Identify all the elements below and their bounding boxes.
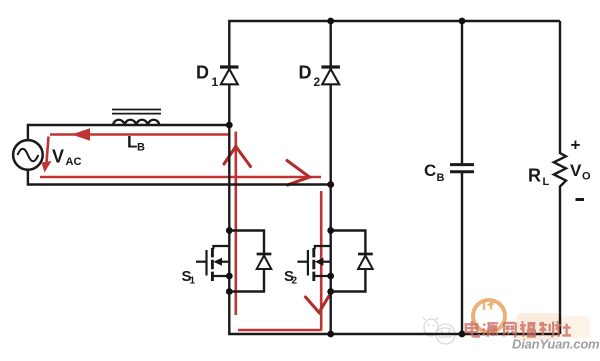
svg-text:1: 1 xyxy=(212,75,219,89)
svg-text:V: V xyxy=(570,161,582,180)
svg-text:AC: AC xyxy=(66,156,82,168)
svg-text:V: V xyxy=(52,147,64,167)
svg-text:D: D xyxy=(196,63,209,83)
svg-text:DianYuan.com: DianYuan.com xyxy=(512,337,600,352)
svg-text:B: B xyxy=(437,172,445,184)
svg-text:O: O xyxy=(582,171,591,183)
svg-text:2: 2 xyxy=(292,276,298,287)
svg-text:C: C xyxy=(424,161,436,180)
svg-text:+: + xyxy=(571,136,581,155)
svg-text:R: R xyxy=(528,166,541,186)
svg-text:1: 1 xyxy=(190,276,196,287)
svg-text:L: L xyxy=(127,133,137,152)
svg-text:B: B xyxy=(137,142,145,154)
svg-text:2: 2 xyxy=(314,75,321,89)
svg-text:L: L xyxy=(543,176,550,188)
svg-text:D: D xyxy=(299,63,312,83)
